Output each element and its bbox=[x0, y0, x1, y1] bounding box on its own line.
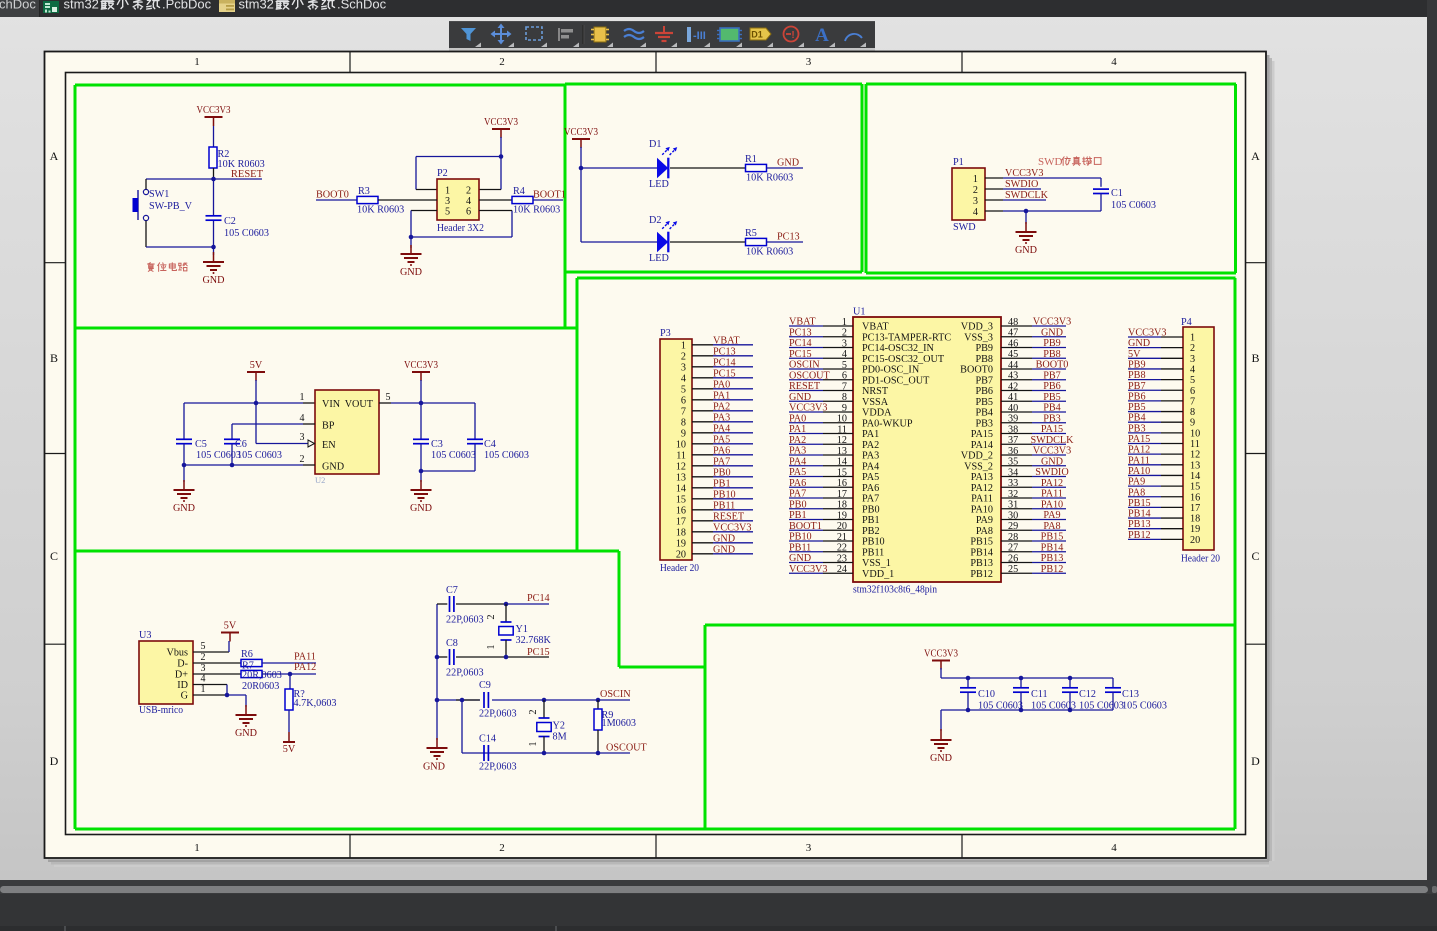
svg-text:11: 11 bbox=[676, 450, 686, 461]
wire U1 pin 34 bbox=[1001, 476, 1066, 478]
svg-text:1: 1 bbox=[842, 317, 847, 328]
net label VBAT (P3 pin 1) bbox=[713, 335, 740, 346]
wire P4 pin 11 bbox=[1128, 443, 1183, 445]
svg-text:PA4: PA4 bbox=[789, 456, 806, 467]
net label VCC3V3 (P4 pin 1) bbox=[1128, 328, 1167, 339]
net label PA12 bbox=[294, 662, 316, 673]
svg-text:2: 2 bbox=[466, 186, 471, 197]
wire U1 pin 27 bbox=[1001, 551, 1066, 553]
wire top rail bbox=[941, 668, 1113, 678]
svg-text:PC14-OSC32_IN: PC14-OSC32_IN bbox=[862, 343, 935, 354]
svg-text:Header 3X2: Header 3X2 bbox=[437, 223, 484, 234]
pin number 20 (U1) bbox=[837, 521, 847, 532]
net label PA15 (P4 pin 11) bbox=[1128, 434, 1150, 445]
svg-text:18: 18 bbox=[1190, 514, 1200, 525]
svg-text:C14: C14 bbox=[479, 734, 496, 745]
net label RESET (U1 pin 7) bbox=[789, 381, 821, 392]
svg-text:C9: C9 bbox=[479, 680, 491, 691]
svg-text:PA2: PA2 bbox=[713, 401, 730, 412]
svg-text:10K R0603: 10K R0603 bbox=[746, 173, 793, 184]
pin number 22 (U1) bbox=[837, 543, 847, 554]
svg-text:C1: C1 bbox=[1111, 188, 1123, 199]
svg-text:PB8: PB8 bbox=[1128, 370, 1146, 381]
svg-text:PB10: PB10 bbox=[789, 532, 812, 543]
wire bbox=[670, 167, 746, 169]
node junction bbox=[435, 698, 440, 703]
wire U1 pin 19 bbox=[789, 519, 853, 521]
net label SWDIO bbox=[1005, 179, 1038, 190]
svg-text:PA7: PA7 bbox=[789, 489, 806, 500]
power VCC3V3 (LED) bbox=[564, 127, 598, 148]
net label OSCOUT bbox=[606, 743, 648, 754]
svg-text:A: A bbox=[815, 25, 829, 46]
svg-text:PB0: PB0 bbox=[713, 467, 731, 478]
svg-text:PB6: PB6 bbox=[1043, 381, 1061, 392]
svg-text:9: 9 bbox=[681, 428, 686, 439]
wire P3 pin 17 bbox=[692, 520, 753, 522]
wire P3 pin 8 bbox=[692, 421, 753, 423]
resistor R7 bbox=[241, 661, 282, 693]
net label PB8 (P4 pin 5) bbox=[1128, 370, 1146, 381]
node junction bbox=[542, 751, 601, 756]
wire U1 pin 26 bbox=[1001, 562, 1066, 564]
node junction bbox=[225, 693, 230, 698]
wire P3 pin 2 bbox=[692, 355, 753, 357]
svg-text:G: G bbox=[181, 691, 189, 702]
svg-text:8: 8 bbox=[1190, 407, 1195, 418]
svg-text:15: 15 bbox=[837, 467, 847, 478]
net label PA9 (P4 pin 15) bbox=[1128, 477, 1145, 488]
svg-text:SWDCLK: SWDCLK bbox=[1030, 435, 1074, 446]
svg-text:PB8: PB8 bbox=[975, 354, 993, 365]
svg-text:12: 12 bbox=[837, 435, 847, 446]
svg-text:GND: GND bbox=[423, 762, 445, 773]
svg-text:GND: GND bbox=[789, 392, 811, 403]
pin number 28 (U1) bbox=[1008, 532, 1018, 543]
svg-text:PA8: PA8 bbox=[1043, 521, 1060, 532]
svg-text:105 C0603: 105 C0603 bbox=[1122, 701, 1167, 712]
svg-text:PB6: PB6 bbox=[975, 386, 993, 397]
svg-text:VDDA: VDDA bbox=[862, 408, 892, 419]
svg-text:10: 10 bbox=[837, 414, 847, 425]
svg-text:22P,0603: 22P,0603 bbox=[446, 615, 484, 626]
svg-text:PA4: PA4 bbox=[713, 423, 730, 434]
svg-text:SWD: SWD bbox=[953, 222, 976, 233]
svg-text:12: 12 bbox=[676, 461, 686, 472]
svg-text:U2: U2 bbox=[315, 475, 325, 485]
wire U1 pin 18 bbox=[789, 508, 853, 510]
svg-text:D: D bbox=[1251, 754, 1260, 768]
svg-text:4: 4 bbox=[842, 349, 847, 360]
net label PB1 (U1 pin 19) bbox=[789, 510, 807, 521]
selection rect block MCU bbox=[577, 278, 1236, 829]
svg-text:32: 32 bbox=[1008, 489, 1018, 500]
svg-text:VDD_1: VDD_1 bbox=[862, 569, 894, 580]
svg-text:22P,0603: 22P,0603 bbox=[479, 762, 517, 773]
svg-text:GND: GND bbox=[235, 728, 257, 739]
svg-text:2: 2 bbox=[201, 652, 206, 663]
net label PB3 (U1 pin 39) bbox=[1043, 413, 1061, 424]
wire pin2 bbox=[985, 188, 1041, 190]
wire bbox=[262, 673, 316, 675]
node junction bbox=[211, 245, 216, 250]
wire P3 pin 4 bbox=[692, 377, 753, 379]
svg-text:PA0: PA0 bbox=[713, 379, 730, 390]
net label VBAT (U1 pin 1) bbox=[789, 317, 816, 328]
wire U1 pin 32 bbox=[1001, 497, 1066, 499]
net label PA10 (P4 pin 14) bbox=[1128, 466, 1150, 477]
pin number 3 (U1) bbox=[842, 338, 847, 349]
wire U1 pin 10 bbox=[789, 422, 853, 424]
selection rect block USB crystal bbox=[75, 551, 1235, 829]
svg-text:PA9: PA9 bbox=[1043, 510, 1060, 521]
resistor R6 bbox=[241, 649, 262, 667]
wire P4 pin 19 bbox=[1128, 528, 1183, 530]
power 5V (USB) bbox=[221, 621, 239, 642]
header P2 bbox=[437, 168, 484, 234]
svg-text:C7: C7 bbox=[446, 585, 458, 596]
svg-text:A: A bbox=[1251, 149, 1260, 163]
wire bbox=[262, 662, 316, 664]
wire P4 pin 3 bbox=[1128, 357, 1183, 359]
capacitor C4 bbox=[467, 403, 529, 471]
capacitor C14 bbox=[479, 734, 517, 773]
capacitor C9 bbox=[479, 680, 517, 720]
svg-text:PC14: PC14 bbox=[713, 357, 736, 368]
svg-text:B: B bbox=[1251, 351, 1259, 365]
pin number 15 (U1) bbox=[837, 467, 847, 478]
svg-text:19: 19 bbox=[837, 510, 847, 521]
svg-text:PA6: PA6 bbox=[713, 445, 730, 456]
net label BOOT0 bbox=[316, 190, 349, 201]
svg-text:PA12: PA12 bbox=[1041, 478, 1063, 489]
capacitor C7 bbox=[437, 585, 506, 626]
wire pin2 GND bbox=[184, 454, 315, 465]
svg-text:PA9: PA9 bbox=[1128, 477, 1145, 488]
svg-text:3: 3 bbox=[445, 196, 450, 207]
net label PB0 (U1 pin 18) bbox=[789, 499, 807, 510]
wire bbox=[580, 147, 582, 168]
svg-text:41: 41 bbox=[1008, 392, 1018, 403]
net label PA5 (U1 pin 15) bbox=[789, 467, 806, 478]
svg-text:R1: R1 bbox=[745, 154, 757, 165]
svg-text:7: 7 bbox=[1190, 396, 1195, 407]
svg-text:PC13-TAMPER-RTC: PC13-TAMPER-RTC bbox=[862, 332, 951, 343]
svg-text:PA12: PA12 bbox=[294, 662, 316, 673]
net label PA11 (P4 pin 13) bbox=[1128, 455, 1150, 466]
net label PC13 (P3 pin 2) bbox=[713, 346, 736, 357]
svg-text:PA4: PA4 bbox=[862, 461, 879, 472]
net label PA9 (U1 pin 30) bbox=[1043, 510, 1060, 521]
pin number 43 (U1) bbox=[1008, 371, 1018, 382]
svg-text:D2: D2 bbox=[649, 215, 661, 226]
net label PA5 (P3 pin 10) bbox=[713, 434, 730, 445]
net label PB9 (P4 pin 4) bbox=[1128, 359, 1146, 370]
svg-text:SWD: SWD bbox=[1038, 156, 1063, 168]
svg-text:PC15: PC15 bbox=[527, 647, 550, 658]
wire U1 pin 23 bbox=[789, 562, 853, 564]
node junction bbox=[1024, 209, 1029, 214]
svg-text:PA5: PA5 bbox=[713, 434, 730, 445]
svg-text:33: 33 bbox=[1008, 478, 1018, 489]
wire pin4 bbox=[479, 199, 512, 201]
svg-text:VCC3V3: VCC3V3 bbox=[1033, 446, 1072, 457]
svg-text:A: A bbox=[50, 149, 59, 163]
wire U1 pin 21 bbox=[789, 540, 853, 542]
pin number 31 (U1) bbox=[1008, 500, 1018, 511]
svg-text:20: 20 bbox=[837, 521, 847, 532]
net label GND (U1 pin 47) bbox=[1041, 327, 1063, 338]
resistor R3 bbox=[357, 186, 404, 216]
svg-text:PB15: PB15 bbox=[970, 537, 993, 548]
svg-text:VOUT: VOUT bbox=[345, 399, 374, 410]
power 5V (reg) bbox=[247, 360, 265, 381]
svg-text:17: 17 bbox=[676, 516, 686, 527]
svg-text:PA10: PA10 bbox=[1041, 499, 1063, 510]
wire U1 pin 17 bbox=[789, 497, 853, 499]
svg-text:PB5: PB5 bbox=[1043, 392, 1061, 403]
ground GND (osc) bbox=[423, 738, 448, 773]
node junction bbox=[435, 655, 509, 660]
net label PB14 (U1 pin 27) bbox=[1041, 542, 1064, 553]
text reset circuit caption bbox=[147, 263, 187, 272]
wire P4 pin 16 bbox=[1128, 496, 1183, 498]
svg-text:VBAT: VBAT bbox=[862, 322, 889, 333]
svg-text:PB7: PB7 bbox=[1128, 381, 1146, 392]
svg-text:PA1: PA1 bbox=[862, 429, 879, 440]
wire U1 pin 13 bbox=[789, 454, 853, 456]
svg-text:PB0: PB0 bbox=[789, 499, 807, 510]
net label PA1 (P3 pin 6) bbox=[713, 390, 730, 401]
LED D2 bbox=[649, 215, 677, 264]
wire P3 pin 10 bbox=[692, 443, 753, 445]
net label RESET bbox=[231, 169, 264, 180]
svg-text:VCC3V3: VCC3V3 bbox=[789, 403, 828, 414]
pin number 18 (U1) bbox=[837, 500, 847, 511]
svg-text:17: 17 bbox=[837, 489, 847, 500]
pin number 47 (U1) bbox=[1008, 328, 1018, 339]
svg-text:PA11: PA11 bbox=[971, 494, 993, 505]
svg-text:BOOT0: BOOT0 bbox=[316, 190, 349, 201]
net label OSCIN (U1 pin 5) bbox=[789, 360, 820, 371]
LED D1 bbox=[649, 139, 677, 190]
svg-text:16: 16 bbox=[837, 478, 847, 489]
svg-text:P2: P2 bbox=[437, 168, 448, 179]
svg-text:GND: GND bbox=[322, 462, 344, 473]
svg-text:PB13: PB13 bbox=[970, 558, 993, 569]
svg-text:D: D bbox=[50, 754, 59, 768]
svg-text:PA11: PA11 bbox=[1128, 455, 1150, 466]
svg-text:PB13: PB13 bbox=[1041, 553, 1064, 564]
connector U3 bbox=[139, 630, 193, 716]
wire bbox=[420, 380, 422, 403]
net label PA1 (U1 pin 11) bbox=[789, 424, 806, 435]
pin number 34 (U1) bbox=[1008, 467, 1018, 478]
svg-text:22P,0603: 22P,0603 bbox=[446, 668, 484, 679]
svg-text:1: 1 bbox=[194, 56, 200, 68]
pin number 11 (U1) bbox=[837, 424, 847, 435]
pin number 21 (U1) bbox=[837, 532, 847, 543]
svg-text:PB15: PB15 bbox=[1041, 532, 1064, 543]
svg-text:R5: R5 bbox=[745, 228, 757, 239]
ground GND (reset) bbox=[202, 247, 224, 286]
pin number 36 (U1) bbox=[1008, 446, 1018, 457]
svg-text:SWDCLK: SWDCLK bbox=[1005, 190, 1049, 201]
svg-text:PA3: PA3 bbox=[789, 446, 806, 457]
svg-text:GND: GND bbox=[1128, 338, 1150, 349]
wire bbox=[316, 199, 357, 201]
wire P4 pin 6 bbox=[1128, 389, 1183, 391]
resistor R8 pullup bbox=[285, 674, 337, 710]
wire U1 pin 9 bbox=[789, 411, 853, 413]
svg-text:22: 22 bbox=[837, 543, 847, 554]
svg-text:4.7K,0603: 4.7K,0603 bbox=[294, 698, 337, 709]
net label GND (P3 pin 20) bbox=[713, 544, 735, 555]
text SWD caption bbox=[1038, 156, 1101, 168]
net label PB7 (P4 pin 6) bbox=[1128, 381, 1146, 392]
wire U1 pin 2 bbox=[789, 336, 853, 338]
wire P3 pin 5 bbox=[692, 388, 753, 390]
net label PC13 (R5) bbox=[767, 232, 804, 243]
svg-text:PA8: PA8 bbox=[976, 526, 993, 537]
svg-text:PB9: PB9 bbox=[975, 343, 993, 354]
net label PC14 (U1 pin 3) bbox=[789, 338, 812, 349]
header P1 bbox=[952, 157, 985, 233]
net label PC14 (P3 pin 3) bbox=[713, 357, 736, 368]
pin number 1 (U1) bbox=[842, 317, 847, 328]
wire OSCIN row bbox=[437, 699, 630, 701]
svg-text:42: 42 bbox=[1008, 381, 1018, 392]
svg-text:C3: C3 bbox=[431, 439, 443, 450]
svg-text:PC14: PC14 bbox=[789, 338, 812, 349]
net label PA0 (P3 pin 5) bbox=[713, 379, 730, 390]
svg-text:U3: U3 bbox=[139, 630, 151, 641]
svg-text:PB8: PB8 bbox=[1043, 349, 1061, 360]
wire P3 pin 16 bbox=[692, 509, 753, 511]
wire bbox=[506, 603, 549, 605]
net label PA2 (U1 pin 12) bbox=[789, 435, 806, 446]
net label PB13 (P4 pin 19) bbox=[1128, 519, 1151, 530]
pin number 45 (U1) bbox=[1008, 349, 1018, 360]
svg-text:PA3: PA3 bbox=[862, 451, 879, 462]
svg-text:13: 13 bbox=[676, 472, 686, 483]
svg-text:PB12: PB12 bbox=[1041, 564, 1064, 575]
net label VCC3V3 (U1 pin 36) bbox=[1033, 446, 1072, 457]
wire pin2 bbox=[193, 662, 241, 664]
net label GND (U1 pin 35) bbox=[1041, 456, 1063, 467]
svg-text:19: 19 bbox=[676, 538, 686, 549]
svg-text:20R0603: 20R0603 bbox=[242, 681, 279, 692]
pin number 16 (U1) bbox=[837, 478, 847, 489]
wire P4 pin 20 bbox=[1128, 538, 1183, 540]
net label PA11 (U1 pin 32) bbox=[1041, 489, 1063, 500]
wire U1 pin 20 bbox=[789, 529, 853, 531]
svg-text:GND: GND bbox=[410, 503, 432, 514]
svg-text:PC13: PC13 bbox=[713, 346, 736, 357]
svg-text:Y2: Y2 bbox=[553, 721, 565, 732]
svg-text:PD0-OSC_IN: PD0-OSC_IN bbox=[862, 365, 920, 376]
svg-text:.SchDoc: .SchDoc bbox=[337, 0, 387, 12]
net label GND (P4 pin 2) bbox=[1128, 338, 1150, 349]
svg-text:GND: GND bbox=[1015, 245, 1037, 256]
svg-text:PA9: PA9 bbox=[976, 515, 993, 526]
net label OSCOUT (U1 pin 6) bbox=[789, 370, 831, 381]
svg-text:PA5: PA5 bbox=[862, 472, 879, 483]
svg-text:24: 24 bbox=[837, 564, 847, 575]
net label VCC3V3 (U1 pin 48) bbox=[1033, 317, 1072, 328]
svg-text:PA13: PA13 bbox=[971, 472, 993, 483]
svg-text:chDoc: chDoc bbox=[0, 0, 36, 12]
MCU U1 bbox=[853, 307, 1001, 596]
wire P4 pin 4 bbox=[1128, 368, 1183, 370]
svg-text:GND: GND bbox=[173, 503, 195, 514]
ground GND (reg right) bbox=[410, 471, 432, 514]
header P3 bbox=[660, 328, 699, 574]
power VCC3V3 (P2) bbox=[484, 117, 518, 138]
wire U1 pin 29 bbox=[1001, 529, 1066, 531]
svg-text:PA15: PA15 bbox=[1128, 434, 1150, 445]
net label PB5 (U1 pin 41) bbox=[1043, 392, 1061, 403]
svg-text:39: 39 bbox=[1008, 414, 1018, 425]
wire U1 pin 48 bbox=[1001, 325, 1066, 327]
net label PB11 (U1 pin 22) bbox=[789, 542, 811, 553]
pin number 40 (U1) bbox=[1008, 403, 1018, 414]
svg-text:VCC3V3: VCC3V3 bbox=[1033, 317, 1072, 328]
net label PA11 bbox=[294, 652, 316, 663]
wire U1 pin 42 bbox=[1001, 390, 1066, 392]
svg-text:3: 3 bbox=[806, 842, 812, 854]
svg-text:28: 28 bbox=[1008, 532, 1018, 543]
wire U1 pin 30 bbox=[1001, 519, 1066, 521]
wire P4 pin 18 bbox=[1128, 517, 1183, 519]
svg-text:PC13: PC13 bbox=[777, 232, 800, 243]
svg-text:8: 8 bbox=[681, 417, 686, 428]
wire P3 pin 20 bbox=[692, 553, 753, 555]
svg-text:LED: LED bbox=[649, 179, 669, 190]
svg-text:EN: EN bbox=[322, 440, 336, 451]
svg-text:27: 27 bbox=[1008, 543, 1018, 554]
svg-text:VCC3V3: VCC3V3 bbox=[1128, 328, 1167, 339]
net label PB0 (P3 pin 13) bbox=[713, 467, 731, 478]
pin number 46 (U1) bbox=[1008, 338, 1018, 349]
svg-text:3: 3 bbox=[973, 196, 978, 207]
net label PB10 (U1 pin 21) bbox=[789, 532, 812, 543]
net label PB13 (U1 pin 26) bbox=[1041, 553, 1064, 564]
svg-text:PA0-WKUP: PA0-WKUP bbox=[862, 418, 913, 429]
svg-text:2: 2 bbox=[300, 454, 305, 465]
svg-text:VSS_2: VSS_2 bbox=[964, 461, 993, 472]
svg-text:3: 3 bbox=[1190, 354, 1195, 365]
svg-text:PB7: PB7 bbox=[1043, 370, 1061, 381]
svg-text:14: 14 bbox=[1190, 471, 1200, 482]
svg-text:2: 2 bbox=[842, 328, 847, 339]
svg-text:48: 48 bbox=[1008, 317, 1018, 328]
wire pin4 bbox=[985, 210, 1101, 212]
svg-text:3: 3 bbox=[806, 56, 812, 68]
svg-text:4: 4 bbox=[1111, 56, 1117, 68]
pin number 17 (U1) bbox=[837, 489, 847, 500]
wire pin5 VOUT bbox=[379, 392, 475, 403]
wire U1 pin 15 bbox=[789, 476, 853, 478]
svg-text:43: 43 bbox=[1008, 371, 1018, 382]
wire U1 pin 25 bbox=[1001, 572, 1066, 574]
svg-text:19: 19 bbox=[1190, 524, 1200, 535]
svg-text:PB4: PB4 bbox=[975, 408, 993, 419]
wire pin3 bbox=[193, 673, 241, 675]
svg-text:46: 46 bbox=[1008, 338, 1018, 349]
net label GND (U1 pin 8) bbox=[789, 392, 811, 403]
selection rect block LED bbox=[565, 84, 862, 272]
